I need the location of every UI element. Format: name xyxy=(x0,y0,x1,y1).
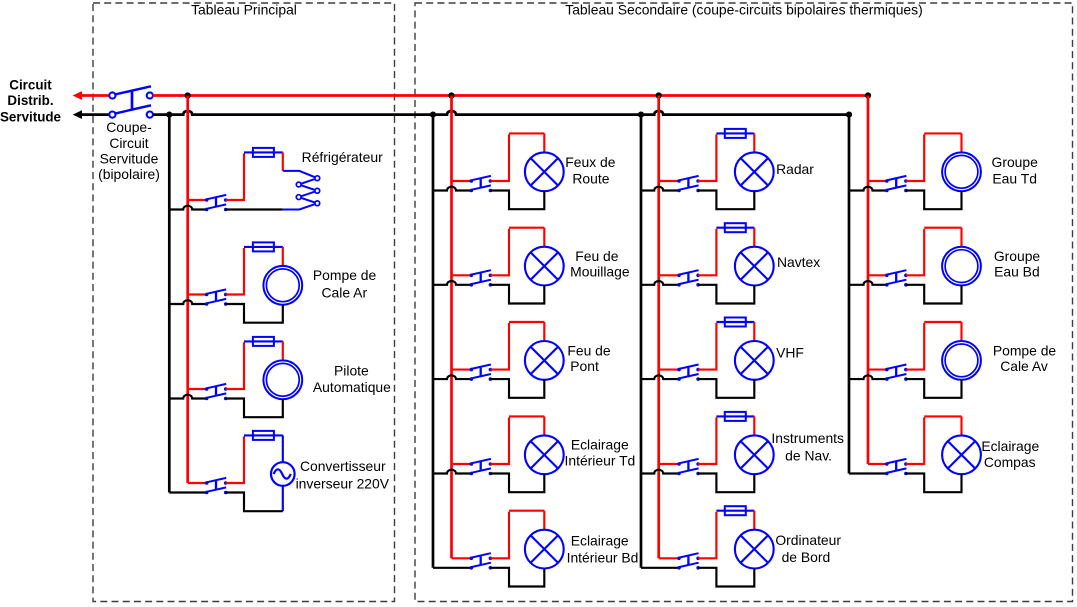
wire: red tap from feeder to breaker (Eclairage Intérieur Bd) xyxy=(452,557,472,559)
wire: black 0V feeder, secondary column 3 xyxy=(848,115,851,474)
wire: red top link (Feu de Pont) xyxy=(509,321,544,323)
svg-text:Automatique: Automatique xyxy=(313,379,391,395)
wire: black 0V feeder, Tableau Principal xyxy=(168,115,171,493)
wire: red drop into load (Navtex) xyxy=(753,228,755,247)
wire: black tap from feeder to breaker (Pompe de Cale Ar) xyxy=(169,300,206,304)
svg-text:Coupe-: Coupe- xyxy=(106,119,152,135)
svg-text:Navtex: Navtex xyxy=(777,254,820,270)
wire: red drop into load (Radar) xyxy=(753,133,755,152)
wire: black return under load (Feu de Pont) xyxy=(490,379,544,398)
lamp L11 (Navtex) xyxy=(735,247,774,286)
fuse F1 (Réfrigérateur) xyxy=(244,151,283,153)
fuse F2 (Pompe de Cale Ar) xyxy=(244,246,283,248)
breaker S10 (Radar, bipolaire thermique) xyxy=(677,176,700,192)
svg-text:Réfrigérateur: Réfrigérateur xyxy=(302,149,383,165)
svg-text:Instruments: Instruments xyxy=(771,430,844,446)
arrow: 0V return from Circuit Distrib. Servitude (black) xyxy=(73,110,82,119)
svg-text:Pilote: Pilote xyxy=(334,362,369,378)
enclosure: Tableau Principal (dashed panel border) xyxy=(93,3,395,602)
fuse F3 (Pilote Automatique) xyxy=(244,340,283,342)
svg-text:Ordinateur: Ordinateur xyxy=(775,532,841,548)
wire: red drop into load (Pilote Automatique) xyxy=(282,341,284,360)
breaker S7 (Feu de Pont, bipolaire thermique) xyxy=(470,365,493,381)
wire: black return under load (Pompe de Cale Av) xyxy=(906,379,962,398)
svg-text:Eclairage: Eclairage xyxy=(571,436,629,452)
wire: black tap from feeder to breaker (Groupe Eau Td) xyxy=(849,187,887,191)
breaker S15 (Groupe Eau Td, bipolaire thermique) xyxy=(885,176,908,192)
svg-text:de Bord: de Bord xyxy=(782,549,831,565)
fuse F13 (Instruments de Nav.) xyxy=(716,415,754,417)
svg-text:Eclairage: Eclairage xyxy=(981,438,1039,454)
wire: red tap from feeder to breaker (Groupe Eau Bd) xyxy=(868,274,887,276)
label: Groupe Eau Bd xyxy=(994,248,1041,280)
svg-text:Circuit: Circuit xyxy=(9,77,52,92)
enclosure: Tableau Secondaire (dashed panel border) xyxy=(415,3,1073,602)
svg-text:Circuit: Circuit xyxy=(109,135,148,151)
breaker S12 (VHF, bipolaire thermique) xyxy=(677,365,700,381)
label: Ordinateur de Bord xyxy=(775,532,841,565)
breaker S14 (Ordinateur de Bord, bipolaire thermique) xyxy=(677,553,700,569)
wire: red from breaker up to top link (Pompe de Cale Av) xyxy=(906,323,924,370)
wire: red tap from feeder to breaker (Feux de Route) xyxy=(452,180,472,182)
wire: blue drop from fuse to inverter (Convertisseur inverseur 220V) xyxy=(282,435,284,463)
label: VHF xyxy=(776,345,804,361)
breaker S3 (Pilote Automatique, bipolaire thermique) xyxy=(205,384,228,400)
wire: red top link (Feux de Route) xyxy=(509,132,544,134)
svg-text:(bipolaire): (bipolaire) xyxy=(98,166,160,182)
wire: red from breaker up to top link (Feu de Pont) xyxy=(490,323,509,370)
breaker S13 (Instruments de Nav., bipolaire thermique) xyxy=(677,459,700,475)
svg-text:Servitude: Servitude xyxy=(0,109,61,124)
wire: red tap from feeder to breaker (VHF) xyxy=(659,369,679,371)
wire: red tap from feeder to breaker (Instruments de Nav.) xyxy=(659,463,679,465)
wire: red tap from feeder to breaker (Ordinateur de Bord) xyxy=(659,557,679,559)
label: Circuit Distrib. Servitude (external net name) xyxy=(0,77,61,124)
wire: red drop into load (Pompe de Cale Av) xyxy=(960,322,962,341)
wire: black tap from feeder to breaker (Eclairage Compas) xyxy=(849,472,887,474)
wire: black tap from feeder to breaker (Navtex) xyxy=(641,281,679,285)
wire: black tap from feeder to breaker (Feu de Mouillage) xyxy=(433,281,471,285)
breaker S9 (Eclairage Intérieur Bd, bipolaire thermique) xyxy=(470,553,493,569)
wire: red from breaker up to top link (Feux de Route) xyxy=(490,134,509,181)
wire: black tap from feeder to breaker (Eclairage Intérieur Bd) xyxy=(433,567,471,569)
svg-text:Distrib.: Distrib. xyxy=(7,93,53,108)
label: Pompe de Cale Av xyxy=(993,343,1057,375)
wire: red from breaker up to top link (Eclairage Intérieur Bd) xyxy=(490,512,509,559)
breaker S5 (Feux de Route, bipolaire thermique) xyxy=(470,176,493,192)
svg-text:Cale Av: Cale Av xyxy=(1000,358,1048,374)
wire: red drop into load (Eclairage Intérieur Bd) xyxy=(543,511,545,530)
inverter U4 AC source (Convertisseur inverseur 220V) xyxy=(271,462,295,486)
svg-text:Compas: Compas xyxy=(984,454,1036,470)
motor M3 (Pilote Automatique) xyxy=(263,360,302,399)
svg-text:Tableau Principal: Tableau Principal xyxy=(191,1,297,17)
svg-text:Eclairage: Eclairage xyxy=(571,533,629,549)
wire: black tap from feeder to breaker (Pompe de Cale Av) xyxy=(849,375,887,379)
lamp L6 (Feu de Mouillage) xyxy=(525,247,564,286)
wire: black tap from feeder to breaker (Feu de Pont) xyxy=(433,375,471,379)
wire: red top link (Groupe Eau Bd) xyxy=(924,227,961,229)
wire: black tap from feeder to breaker (Ordinateur de Bord) xyxy=(641,567,679,569)
lamp L14 (Ordinateur de Bord) xyxy=(735,530,774,569)
breaker S16 (Groupe Eau Bd, bipolaire thermique) xyxy=(885,270,908,286)
label: Coupe-Circuit Servitude (bipolaire) xyxy=(98,119,160,182)
label: Réfrigérateur xyxy=(302,149,383,165)
svg-text:de Nav.: de Nav. xyxy=(785,448,832,464)
wire: red top link (Eclairage Compas) xyxy=(924,415,961,417)
wire: red drop into load (Pompe de Cale Ar) xyxy=(282,247,284,266)
wire: red from breaker up to top link (Pompe de Cale Ar) xyxy=(226,248,244,295)
label: Convertisseur inverseur 220V xyxy=(296,458,390,492)
wire: red from breaker up to top link (VHF) xyxy=(698,323,716,370)
svg-text:Mouillage: Mouillage xyxy=(570,264,630,280)
svg-text:Servitude: Servitude xyxy=(100,151,159,167)
motor M15 (Groupe Eau Td) xyxy=(942,152,981,191)
wire: red +12V feeder, Tableau Principal xyxy=(186,96,189,484)
wire: red top link (Pompe de Cale Av) xyxy=(924,321,961,323)
motor M2 (Pompe de Cale Ar) xyxy=(263,266,302,305)
wire: black tap from feeder to breaker (Pilote Automatique) xyxy=(169,395,206,399)
node: black bus corner, column 3 feeder xyxy=(846,112,852,118)
breaker S11 (Navtex, bipolaire thermique) xyxy=(677,270,700,286)
wire: black return under load (Feux de Route) xyxy=(490,191,544,210)
svg-text:Feu de: Feu de xyxy=(575,248,619,264)
motor M1 compressor terminals (Réfrigérateur) xyxy=(283,171,320,210)
wire: red from breaker up to top link (Navtex) xyxy=(698,229,716,276)
wire: red drop into load (Ordinateur de Bord) xyxy=(753,511,755,530)
node: red bus corner, column 3 feeder xyxy=(865,92,871,98)
breaker S8 (Eclairage Intérieur Td, bipolaire thermique) xyxy=(470,459,493,475)
breaker S17 (Pompe de Cale Av, bipolaire thermique) xyxy=(885,365,908,381)
svg-text:Feu de: Feu de xyxy=(567,342,611,358)
lamp L5 (Feux de Route) xyxy=(525,152,564,191)
breaker S1 (Réfrigérateur, bipolaire thermique) xyxy=(205,195,228,211)
wire: red drop into load (Feu de Pont) xyxy=(543,322,545,341)
lamp L18 (Eclairage Compas) xyxy=(942,435,981,474)
node: black bus junction, column 2 feeder xyxy=(638,112,644,118)
wire: red +12V feeder, secondary column 2 xyxy=(657,96,660,559)
lamp L10 (Radar) xyxy=(735,152,774,191)
wire: black tap from feeder to breaker (Feux de Route) xyxy=(433,187,471,191)
wire: blue from inverter to black return (Convertisseur inverseur 220V) xyxy=(282,486,284,511)
label: Eclairage Compas xyxy=(981,438,1039,470)
wire: black return under load (Eclairage Intérieur Bd) xyxy=(490,568,544,587)
svg-text:Pont: Pont xyxy=(570,358,599,374)
wire: red drop into load (Instruments de Nav.) xyxy=(753,416,755,435)
fuse F11 (Navtex) xyxy=(716,227,754,229)
fuse F14 (Ordinateur de Bord) xyxy=(716,510,754,512)
wire: black return under load (Instruments de Nav.) xyxy=(698,474,754,493)
svg-text:Radar: Radar xyxy=(776,161,814,177)
wire: red tap from feeder to breaker (Navtex) xyxy=(659,274,679,276)
node: red bus junction, column 1 feeder xyxy=(448,92,454,98)
wire: red from breaker up to top link (Eclairage Intérieur Td) xyxy=(490,417,509,464)
wire: black tap from feeder to breaker (Instruments de Nav.) xyxy=(641,470,679,474)
wire: red tap from feeder to breaker (Pilote Automatique) xyxy=(188,388,207,390)
wire: red drop into load (Groupe Eau Td) xyxy=(960,133,962,152)
wire: red tap from feeder to breaker (Radar) xyxy=(659,180,679,182)
lamp L7 (Feu de Pont) xyxy=(525,341,564,380)
wire: red from breaker up to top link (Convertisseur inverseur 220V) xyxy=(226,436,244,483)
label: Eclairage Intérieur Td xyxy=(565,436,636,468)
svg-text:Intérieur Td: Intérieur Td xyxy=(565,453,636,469)
svg-text:inverseur 220V: inverseur 220V xyxy=(296,476,390,492)
wire: red supply stub to coupe-circuit xyxy=(81,94,109,97)
svg-text:VHF: VHF xyxy=(776,345,804,361)
wire: black tap from feeder to breaker (Groupe Eau Bd) xyxy=(849,281,887,285)
wire: red from breaker up to top link (Eclairage Compas) xyxy=(906,417,924,464)
wire: red tap from feeder to breaker (Réfrigérateur) xyxy=(188,199,207,201)
wire: black return under load (Eclairage Compas) xyxy=(906,474,962,493)
node: red bus junction, column 2 feeder xyxy=(656,92,662,98)
wire: black 0V feeder, secondary column 2 xyxy=(640,115,643,568)
lamp L13 (Instruments de Nav.) xyxy=(735,435,774,474)
svg-text:Groupe: Groupe xyxy=(992,154,1039,170)
wire: red top link (Groupe Eau Td) xyxy=(924,132,961,134)
label: Feu de Mouillage xyxy=(570,248,630,280)
wire: red from breaker up to top link (Groupe Eau Td) xyxy=(906,134,924,181)
svg-text:Convertisseur: Convertisseur xyxy=(300,458,386,474)
wire: red top link (Feu de Mouillage) xyxy=(509,227,544,229)
wire: black return under load (Pompe de Cale Ar) xyxy=(226,304,283,323)
wire: black tap from feeder to breaker (Eclairage Intérieur Td) xyxy=(433,470,471,474)
label: Pompe de Cale Ar xyxy=(313,267,377,300)
label: Navtex xyxy=(777,254,820,270)
fuse F12 (VHF) xyxy=(716,321,754,323)
wire: black return under load (Groupe Eau Td) xyxy=(906,191,962,210)
svg-text:Tableau Secondaire (coupe-circ: Tableau Secondaire (coupe-circuits bipol… xyxy=(565,2,922,18)
wire: red from breaker up to fuse (Réfrigérateur) xyxy=(226,153,244,200)
node: red bus junction, Tableau Principal feeder xyxy=(185,92,191,98)
node: black bus junction, Tableau Principal feeder xyxy=(166,112,172,118)
wire: red tap from feeder to breaker (Eclairage Intérieur Td) xyxy=(452,463,472,465)
wire: red from breaker up to top link (Pilote Automatique) xyxy=(226,342,244,389)
wire: black return under load (Groupe Eau Bd) xyxy=(906,285,962,304)
wire: red top link (Eclairage Intérieur Bd) xyxy=(509,510,544,512)
breaker S18 (Eclairage Compas, bipolaire thermique) xyxy=(885,459,908,475)
wire: red from breaker up to top link (Ordinateur de Bord) xyxy=(698,512,716,559)
wire: black return stub to coupe-circuit xyxy=(81,113,109,116)
wire: black tap from feeder to breaker (Radar) xyxy=(641,187,679,191)
breaker S4 (Convertisseur inverseur 220V, bipolaire thermique) xyxy=(205,478,228,494)
wire: 0V black return bus xyxy=(153,111,849,115)
wire: black return under load (Radar) xyxy=(698,191,754,210)
fuse F4 (Convertisseur inverseur 220V) xyxy=(244,434,283,436)
wire: black return under load (Feu de Mouillage) xyxy=(490,285,544,304)
wire: red tap from feeder to breaker (Pompe de Cale Av) xyxy=(868,369,887,371)
wire: black tap from feeder to breaker (Réfrigérateur) xyxy=(169,206,206,210)
wire: black return from breaker to compressor (Réfrigérateur) xyxy=(226,208,283,210)
arrow: +12V supply to Circuit Distrib. Servitude (red) xyxy=(73,91,82,100)
fuse F10 (Radar) xyxy=(716,132,754,134)
switch S0 Coupe-Circuit Servitude (bipolaire) xyxy=(109,86,153,117)
wire: red from breaker up to top link (Feu de Mouillage) xyxy=(490,229,509,276)
svg-text:Cale Ar: Cale Ar xyxy=(322,285,368,301)
wire: red tap from feeder to breaker (Groupe Eau Td) xyxy=(868,180,887,182)
wire: red tap from feeder to breaker (Feu de Mouillage) xyxy=(452,274,472,276)
wire: black return under load (Eclairage Intérieur Td) xyxy=(490,474,544,493)
wire: black 0V feeder, secondary column 1 xyxy=(432,115,435,568)
wire: red drop into load (Groupe Eau Bd) xyxy=(960,228,962,247)
wire: red tap from feeder to breaker (Eclairage Compas) xyxy=(868,463,887,465)
lamp L8 (Eclairage Intérieur Td) xyxy=(525,435,564,474)
wire: red from breaker up to top link (Groupe Eau Bd) xyxy=(906,229,924,276)
svg-text:Eau Bd: Eau Bd xyxy=(994,264,1040,280)
lamp L12 (VHF) xyxy=(735,341,774,380)
svg-text:Intérieur Bd: Intérieur Bd xyxy=(567,549,639,565)
label: Instruments de Nav. xyxy=(771,430,844,463)
wire: red from breaker up to top link (Radar) xyxy=(698,134,716,181)
motor M16 (Groupe Eau Bd) xyxy=(942,247,981,286)
wire: black return under load (Ordinateur de Bord) xyxy=(698,568,754,587)
wire: black return (Convertisseur inverseur 220V) xyxy=(226,493,283,512)
wire: black return under load (Pilote Automatique) xyxy=(226,399,283,418)
label: Groupe Eau Td xyxy=(992,154,1039,187)
wire: red drop into load (Eclairage Intérieur Td) xyxy=(543,416,545,435)
label: Radar xyxy=(776,161,814,177)
svg-text:Eau Td: Eau Td xyxy=(992,171,1037,187)
label: Pilote Automatique xyxy=(313,362,391,395)
wire: red drop into load (Feux de Route) xyxy=(543,133,545,152)
wire: black tap from feeder to breaker (Convertisseur inverseur 220V) xyxy=(169,491,206,493)
wire: red top link (Eclairage Intérieur Td) xyxy=(509,415,544,417)
svg-text:Groupe: Groupe xyxy=(994,248,1041,264)
breaker S2 (Pompe de Cale Ar, bipolaire thermique) xyxy=(205,289,228,305)
label: Feu de Pont xyxy=(567,342,611,374)
label: Eclairage Intérieur Bd xyxy=(567,533,639,566)
svg-text:Pompe de: Pompe de xyxy=(993,343,1057,359)
breaker S6 (Feu de Mouillage, bipolaire thermique) xyxy=(470,270,493,286)
wire: black tap from feeder to breaker (VHF) xyxy=(641,375,679,379)
wire: red drop into load (VHF) xyxy=(753,322,755,341)
motor M17 (Pompe de Cale Av) xyxy=(942,341,981,380)
wire: +12V red distribution bus xyxy=(153,94,868,97)
wire: red from breaker up to top link (Instruments de Nav.) xyxy=(698,417,716,464)
wire: red tap from feeder to breaker (Convertisseur inverseur 220V) xyxy=(188,482,207,484)
wire: red drop from fuse to compressor (Réfrigérateur) xyxy=(282,152,284,171)
node: black bus junction, column 1 feeder xyxy=(430,112,436,118)
svg-text:Feux de: Feux de xyxy=(565,154,615,170)
wire: red tap from feeder to breaker (Pompe de Cale Ar) xyxy=(188,293,207,295)
wire: black return under load (VHF) xyxy=(698,379,754,398)
wire: red +12V feeder, secondary column 3 xyxy=(867,96,870,465)
svg-text:Route: Route xyxy=(572,170,609,186)
lamp L9 (Eclairage Intérieur Bd) xyxy=(525,530,564,569)
wire: black return under load (Navtex) xyxy=(698,285,754,304)
wire: red tap from feeder to breaker (Feu de Pont) xyxy=(452,369,472,371)
svg-text:Pompe de: Pompe de xyxy=(313,267,377,283)
wire: red drop into load (Feu de Mouillage) xyxy=(543,228,545,247)
label: Feux de Route xyxy=(565,154,615,187)
wire: red drop into load (Eclairage Compas) xyxy=(960,416,962,435)
wire: red +12V feeder, secondary column 1 xyxy=(450,96,453,559)
